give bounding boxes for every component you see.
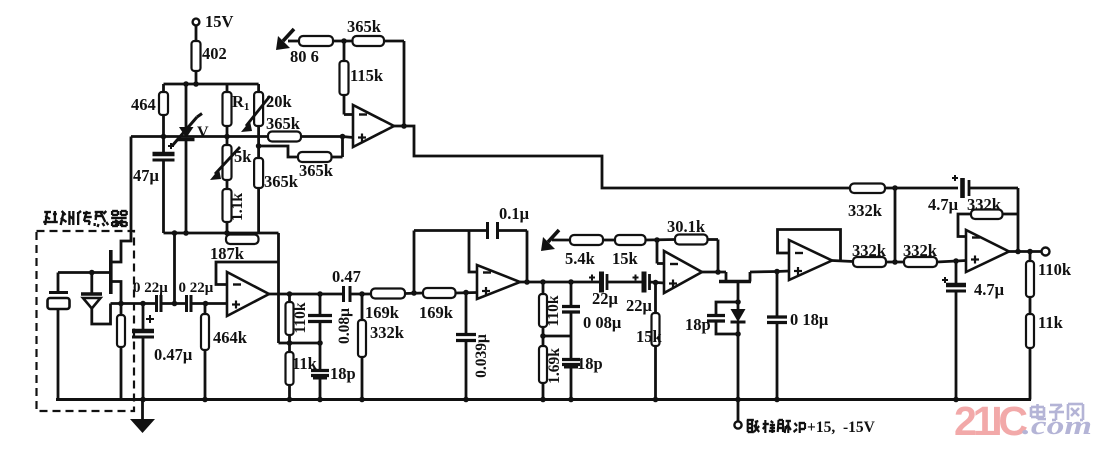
svg-text:187k: 187k — [210, 244, 245, 263]
svg-text:15V: 15V — [205, 12, 234, 31]
svg-text:20k: 20k — [266, 92, 293, 111]
watermark 21IC — [954, 398, 1027, 444]
svg-text:332k: 332k — [903, 241, 938, 260]
label R1 — [232, 92, 249, 113]
label 110k stage1 rotated — [292, 302, 309, 333]
label 332k top — [848, 201, 883, 220]
wire 187k left leg — [173, 233, 176, 304]
resistor 110k stage1 — [286, 294, 294, 352]
resistor 11k stage1 — [286, 352, 294, 400]
wire 187k right leg — [277, 233, 280, 343]
wire U5 output — [832, 261, 853, 262]
capacitor 0.22u first — [157, 295, 187, 312]
svg-text:0.47μ: 0.47μ — [154, 345, 193, 364]
wire U5 feedback — [778, 230, 841, 261]
label 365k vertical — [264, 172, 299, 191]
wire U3 - stub — [469, 231, 477, 272]
resistor 332k fb — [971, 210, 1003, 220]
capacitor 18p clamp — [707, 302, 738, 334]
resistor 11k out — [1026, 314, 1034, 400]
label 0.47 — [332, 267, 361, 286]
potentiometer 5k — [210, 126, 240, 180]
capacitor 0.039u — [456, 293, 476, 400]
resistor 169k first — [371, 289, 423, 299]
noise arrow input — [276, 29, 294, 50]
diode D1 — [81, 270, 111, 324]
wire U5 + input — [777, 270, 789, 273]
wire U3 output — [520, 279, 602, 285]
wire signal row stage1 — [111, 301, 157, 307]
svg-text:365k: 365k — [347, 17, 382, 36]
resistor 365k jog — [298, 152, 332, 162]
label 1.1k rotated — [229, 193, 246, 221]
svg-text:18p: 18p — [330, 364, 356, 383]
op-amp U6 — [966, 230, 1009, 272]
wire node N1 — [279, 340, 323, 346]
wire gate down — [735, 282, 741, 305]
label +15 -15V — [807, 419, 876, 436]
svg-text:0 08μ: 0 08μ — [583, 313, 622, 332]
op-amp U3 — [477, 265, 520, 299]
svg-text:332k: 332k — [848, 201, 883, 220]
capacitor 22u first — [589, 272, 644, 293]
label 4.7u top — [928, 195, 959, 214]
label 5.4k — [565, 249, 596, 268]
wire row240 — [552, 239, 570, 242]
svg-text:15k: 15k — [636, 327, 663, 346]
svg-text:22μ: 22μ — [592, 289, 619, 308]
svg-text:15k: 15k — [612, 249, 639, 268]
op-amp U5 — [789, 240, 832, 280]
resistor 80.6 — [288, 36, 353, 46]
capacitor 18p stage1 — [311, 371, 329, 400]
label 0.039u rotated — [473, 334, 490, 378]
resistor 30.1k — [675, 235, 718, 273]
svg-text:V: V — [197, 124, 209, 141]
label 0.1u — [499, 204, 530, 223]
svg-text:115k: 115k — [350, 66, 384, 85]
label 169k first — [365, 303, 400, 322]
capacitor 4.7u top — [952, 175, 1018, 252]
label 0.08u stage1 rotated — [336, 308, 353, 344]
resistor 110k out — [1026, 252, 1034, 315]
resistor 169k second — [423, 288, 477, 298]
svg-text:0.08μ: 0.08μ — [336, 308, 353, 344]
capacitor 47u — [153, 137, 175, 234]
svg-text:0 22μ: 0 22μ — [133, 280, 168, 296]
op-amp U4 — [664, 251, 702, 293]
label 187k — [210, 244, 245, 263]
JFET switch Q1 — [719, 272, 777, 282]
svg-text:5.4k: 5.4k — [565, 249, 596, 268]
svg-text:464k: 464k — [213, 328, 248, 347]
resistor R1 — [223, 84, 232, 126]
label 22u first — [592, 289, 619, 308]
wire U2 output — [269, 291, 343, 297]
svg-text:464: 464 — [131, 95, 156, 114]
capacitor 0.08u stage1 — [308, 294, 332, 371]
svg-text:30.1k: 30.1k — [667, 217, 706, 236]
capacitor 4.7u plus — [942, 261, 966, 400]
resistor 332k top — [850, 184, 958, 194]
label 169k second — [419, 303, 454, 322]
label 15V — [205, 12, 234, 31]
label 332k mid2 — [903, 241, 938, 260]
resistor 110k stage2 — [539, 282, 547, 346]
potentiometer 20k — [241, 84, 270, 132]
label hongwai chuanganqi — [43, 211, 126, 227]
label 11k out — [1038, 313, 1064, 332]
wire node row136 — [131, 134, 343, 140]
resistor 15k vertical — [652, 283, 660, 400]
resistor 332k stage1 — [358, 294, 366, 400]
resistor 1.69k — [539, 346, 547, 400]
svg-text:0 18μ: 0 18μ — [790, 310, 829, 329]
dashed box sensor — [37, 231, 135, 411]
label 11k stage1 — [292, 354, 318, 373]
svg-text:402: 402 — [202, 44, 227, 63]
capacitor 0.18u — [767, 269, 787, 400]
label 365k top — [347, 17, 382, 36]
zener diode V — [172, 84, 202, 233]
FET source lead — [111, 282, 121, 304]
capacitor 0.22u second — [187, 295, 228, 312]
FET drain lead — [111, 137, 131, 263]
svg-text:0 22μ: 0 22μ — [179, 280, 214, 296]
wire U1 + input — [343, 137, 354, 138]
svg-text:4.7μ: 4.7μ — [974, 280, 1005, 299]
wire U2 - input — [216, 262, 278, 285]
label V — [197, 124, 209, 141]
capacitor 0.1u — [488, 222, 498, 239]
svg-text:169k: 169k — [419, 303, 454, 322]
wire U4 output — [702, 269, 726, 275]
resistor 332k mid1 — [853, 257, 904, 267]
resistor 332k mid2 — [904, 257, 966, 267]
svg-text:80 6: 80 6 — [290, 47, 319, 66]
wire jog row157 — [259, 134, 346, 157]
svg-text:332k: 332k — [967, 195, 1002, 214]
label 18p stage2 — [577, 354, 603, 373]
resistor 402 — [192, 41, 201, 84]
watermark .com — [1022, 411, 1092, 440]
svg-text:4.7μ: 4.7μ — [928, 195, 959, 214]
resistor 187k — [226, 235, 259, 245]
label 332k mid1 — [852, 241, 887, 260]
wire U1 feedback — [401, 41, 407, 129]
resistor sensor internal — [117, 304, 125, 400]
svg-text:0.1μ: 0.1μ — [499, 204, 530, 223]
label 22u second — [626, 296, 653, 315]
svg-text:18p: 18p — [577, 354, 603, 373]
wire bus232 — [164, 230, 279, 236]
resistor 464 — [159, 84, 168, 137]
svg-text:365k: 365k — [299, 161, 334, 180]
label 110k out — [1038, 260, 1072, 279]
wire U1 output long — [394, 126, 850, 188]
op-amp U2 — [227, 272, 269, 316]
label 115k — [350, 66, 384, 85]
watermark dianziwang — [1031, 404, 1083, 420]
terminal output — [1042, 248, 1050, 256]
label 332k fb — [967, 195, 1002, 214]
FET channel bar — [109, 250, 113, 294]
label 332k stage1 — [370, 323, 405, 342]
resistor 365k row136 — [268, 132, 301, 142]
resistor 365k top — [353, 36, 405, 46]
svg-text:47μ: 47μ — [133, 166, 160, 185]
svg-text:.com: .com — [1022, 411, 1092, 440]
wire top bus — [164, 81, 259, 87]
wire 0.1u feedback — [414, 231, 527, 294]
capacitor 0.47u polarized — [132, 304, 154, 400]
label 0.22u second — [179, 280, 214, 296]
label 464 — [131, 95, 156, 114]
wire U4 - stub — [657, 240, 664, 264]
label 0.08u stage2 — [583, 313, 622, 332]
label 365k row136 — [266, 114, 301, 133]
svg-text:332k: 332k — [370, 323, 405, 342]
ground symbol — [130, 400, 155, 434]
svg-text:0.47: 0.47 — [332, 267, 361, 286]
label 20k — [266, 92, 293, 111]
svg-text:110k: 110k — [545, 295, 562, 326]
wire U6 feedback — [958, 214, 1018, 237]
svg-text:110k: 110k — [292, 302, 309, 333]
resistor 464k — [201, 304, 209, 400]
label 402 — [202, 44, 227, 63]
label 110k stage2 rotated — [545, 295, 562, 326]
label 15k row — [612, 249, 639, 268]
label 1.69k rotated — [546, 348, 563, 384]
svg-text:365k: 365k — [266, 114, 301, 133]
svg-text:169k: 169k — [365, 303, 400, 322]
wire ground bus — [56, 397, 1031, 403]
noise arrow stage3 — [541, 230, 559, 251]
svg-text:110k: 110k — [1038, 260, 1072, 279]
label 0.22u first — [133, 280, 168, 296]
label 80 6 — [290, 47, 319, 66]
label 47u — [133, 166, 160, 185]
label 0.47u — [154, 345, 193, 364]
label 0.18u — [790, 310, 829, 329]
resistor 5.4k — [570, 235, 615, 245]
capacitor 18p stage2 — [562, 360, 580, 400]
label 5k — [234, 147, 252, 166]
svg-text:332k: 332k — [852, 241, 887, 260]
label 18p stage1 — [330, 364, 356, 383]
resistor 1.1k — [223, 180, 232, 233]
wire node N2 — [540, 333, 571, 339]
resistor 365k vertical — [254, 126, 263, 233]
wire 895 link — [892, 188, 898, 265]
resistor 115k — [340, 41, 354, 115]
svg-text:1.1k: 1.1k — [229, 193, 246, 221]
piezo sensor element — [48, 273, 70, 400]
svg-text:1.69k: 1.69k — [546, 348, 563, 384]
capacitor 0.47 coupling — [344, 286, 372, 302]
svg-text:21IC: 21IC — [954, 398, 1027, 444]
label 15k vertical — [636, 327, 663, 346]
op-amp U1 — [353, 105, 394, 147]
svg-text:18p: 18p — [685, 315, 711, 334]
svg-text:22μ: 22μ — [626, 296, 653, 315]
capacitor 22u second — [633, 272, 665, 293]
resistor 15k row — [615, 235, 675, 245]
label 30.1k — [667, 217, 706, 236]
label 464k — [213, 328, 248, 347]
label quyang maichong — [747, 420, 805, 433]
wire sampling pulse — [734, 334, 741, 429]
svg-text:11k: 11k — [1038, 313, 1064, 332]
svg-text:0.039μ: 0.039μ — [473, 334, 490, 378]
label 4.7u plus — [974, 280, 1005, 299]
label 365k jog — [299, 161, 334, 180]
capacitor 0.08u stage2 — [562, 282, 580, 360]
FET gate wire — [58, 271, 111, 274]
wire U6 output — [1009, 249, 1042, 255]
terminal 15V — [193, 19, 200, 41]
svg-text:5k: 5k — [234, 147, 252, 166]
svg-text:365k: 365k — [264, 172, 299, 191]
zener clamp — [731, 302, 746, 337]
label 18p clamp — [685, 315, 711, 334]
svg-text:+15, -15V: +15, -15V — [807, 419, 876, 436]
